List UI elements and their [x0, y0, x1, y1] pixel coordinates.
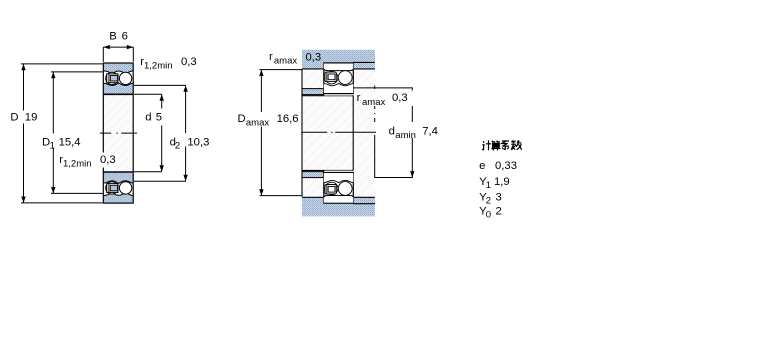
- svg-text:0: 0: [486, 209, 491, 220]
- svg-text:0,33: 0,33: [495, 160, 517, 172]
- svg-text:1: 1: [486, 180, 491, 191]
- svg-text:15,4: 15,4: [59, 137, 81, 149]
- svg-text:10,3: 10,3: [187, 137, 209, 149]
- svg-text:D: D: [238, 113, 246, 125]
- svg-text:3: 3: [496, 192, 502, 204]
- svg-text:0,3: 0,3: [100, 154, 116, 166]
- svg-text:2: 2: [496, 206, 502, 218]
- svg-text:amax: amax: [274, 55, 297, 66]
- svg-text:0,3: 0,3: [392, 92, 408, 104]
- svg-text:7,4: 7,4: [422, 126, 438, 138]
- svg-text:19: 19: [25, 111, 38, 123]
- svg-text:amax: amax: [246, 118, 269, 129]
- svg-text:2: 2: [486, 195, 491, 206]
- svg-text:e: e: [479, 160, 485, 172]
- svg-text:d: d: [389, 126, 395, 138]
- svg-text:5: 5: [156, 111, 162, 123]
- svg-text:amin: amin: [395, 130, 416, 141]
- svg-text:1,2min: 1,2min: [63, 159, 92, 170]
- svg-text:0,3: 0,3: [181, 56, 197, 68]
- svg-text:1: 1: [50, 141, 55, 152]
- svg-text:0,3: 0,3: [306, 52, 322, 64]
- svg-text:amax: amax: [362, 97, 385, 108]
- svg-text:d: d: [145, 111, 151, 123]
- svg-text:r: r: [269, 51, 273, 63]
- svg-text:1,2min: 1,2min: [144, 60, 173, 71]
- svg-text:r: r: [357, 92, 361, 104]
- svg-text:D: D: [10, 111, 18, 123]
- svg-text:6: 6: [122, 31, 128, 43]
- svg-text:2: 2: [175, 141, 180, 152]
- svg-text:B: B: [109, 31, 117, 43]
- svg-text:1,9: 1,9: [494, 176, 510, 188]
- svg-text:16,6: 16,6: [277, 113, 299, 125]
